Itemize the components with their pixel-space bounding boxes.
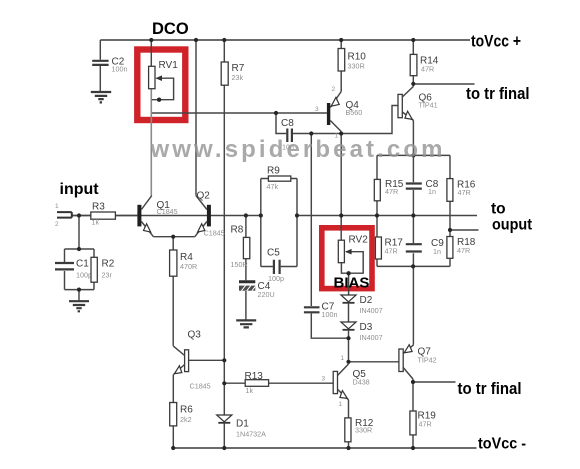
svg-text:C1845: C1845 bbox=[204, 229, 225, 238]
wire Q6 emitter / bias cap column bbox=[412, 121, 414, 345]
trimmer RV2 bbox=[338, 235, 368, 263]
transistor Q7 bbox=[399, 345, 437, 379]
svg-text:TIP42: TIP42 bbox=[418, 356, 437, 365]
wire top +V rail bbox=[100, 39, 470, 41]
resistor R6 bbox=[170, 403, 194, 426]
svg-text:23r: 23r bbox=[102, 271, 113, 280]
svg-text:toVcc +: toVcc + bbox=[471, 32, 521, 51]
label to ouput bbox=[491, 201, 532, 234]
diode D1 zener bbox=[217, 415, 266, 439]
svg-text:3: 3 bbox=[322, 376, 326, 383]
wire Q2 collector column bbox=[195, 40, 197, 196]
wire bottom -V rail bbox=[173, 447, 476, 449]
svg-text:RV2: RV2 bbox=[349, 235, 369, 246]
transistor Q2 bbox=[195, 191, 225, 238]
svg-text:1N4732A: 1N4732A bbox=[236, 430, 266, 439]
wire C2 column bbox=[99, 40, 101, 91]
resistor R15 bbox=[374, 179, 403, 201]
capacitor C1 bbox=[55, 259, 92, 280]
wire Q7 collector to R19 bbox=[412, 379, 414, 448]
wire C7 column bbox=[311, 134, 348, 339]
svg-text:R9: R9 bbox=[267, 166, 280, 177]
svg-text:47R: 47R bbox=[458, 188, 471, 197]
wire input shunt column bbox=[78, 216, 80, 250]
svg-text:B560: B560 bbox=[346, 108, 363, 117]
label BIAS bbox=[334, 275, 370, 292]
resistor R3 bbox=[91, 202, 116, 227]
transistor Q1 bbox=[137, 196, 177, 237]
svg-text:1: 1 bbox=[339, 401, 343, 408]
svg-text:BIAS: BIAS bbox=[334, 275, 370, 292]
svg-text:to tr final: to tr final bbox=[466, 85, 530, 103]
svg-text:2k2: 2k2 bbox=[180, 415, 192, 424]
wire R14 column bbox=[412, 40, 414, 84]
svg-text:www.spiderbeat.com: www.spiderbeat.com bbox=[150, 136, 443, 163]
svg-text:toVcc -: toVcc - bbox=[478, 436, 526, 453]
svg-text:1: 1 bbox=[341, 355, 345, 362]
capacitor C8 (miller) bbox=[281, 118, 294, 152]
wire C1/R2 parallel frame bbox=[65, 249, 95, 300]
wire RV1 column bbox=[150, 40, 152, 196]
resistor R18 bbox=[447, 237, 476, 259]
capacitor C2 bbox=[92, 57, 127, 74]
svg-text:Q3: Q3 bbox=[188, 330, 202, 341]
wire Q3 emitter to R6 bbox=[172, 375, 174, 449]
resistor R2 bbox=[91, 257, 115, 282]
svg-text:C1845: C1845 bbox=[190, 382, 211, 391]
svg-text:D1: D1 bbox=[236, 419, 249, 430]
svg-text:C1: C1 bbox=[76, 259, 89, 270]
resistor R16 bbox=[447, 179, 476, 202]
wire R9/C5 right leg bbox=[296, 179, 298, 267]
label to tr final (top) bbox=[466, 85, 530, 103]
svg-text:ouput: ouput bbox=[492, 217, 532, 234]
wire input/feedback rail left bbox=[72, 215, 261, 217]
resistor R19 bbox=[410, 411, 436, 435]
resistor R17 bbox=[375, 237, 403, 259]
wire output stub from R16/R18 junction bbox=[450, 229, 479, 231]
svg-text:1n: 1n bbox=[428, 187, 436, 196]
label toVcc + bbox=[471, 32, 521, 51]
wire R7 column down to Q3 base / R13 / D1 bbox=[223, 40, 225, 448]
label input bbox=[60, 181, 100, 198]
svg-text:D438: D438 bbox=[353, 378, 370, 387]
wire to tr final top bbox=[413, 83, 474, 85]
svg-text:C1845: C1845 bbox=[157, 207, 178, 216]
diode D2 bbox=[341, 295, 383, 315]
svg-text:150R: 150R bbox=[231, 260, 248, 269]
svg-text:C5: C5 bbox=[267, 248, 280, 259]
wire R4 / Q3 collector column bbox=[172, 237, 174, 346]
resistor R13 bbox=[245, 371, 269, 395]
svg-text:100n: 100n bbox=[322, 310, 338, 319]
wire diode chain column bbox=[348, 273, 350, 362]
wire Q5 emitter to R12 bbox=[348, 400, 350, 448]
wire Q5 collector to Q7 base bbox=[349, 361, 399, 363]
svg-text:330R: 330R bbox=[355, 426, 372, 435]
wire R13 line to Q5 base bbox=[224, 382, 333, 384]
svg-text:220U: 220U bbox=[258, 290, 275, 299]
resistor R8 bbox=[231, 225, 250, 270]
diode D3 bbox=[341, 322, 383, 342]
wire to tr final bottom bbox=[413, 381, 456, 383]
wire R8/C4 column bbox=[245, 216, 247, 320]
wire R3 to Q1 base bbox=[115, 215, 137, 217]
svg-text:3: 3 bbox=[315, 106, 319, 113]
svg-text:47R: 47R bbox=[385, 187, 398, 196]
resistor R9 bbox=[267, 166, 291, 192]
svg-text:R13: R13 bbox=[245, 371, 264, 382]
svg-text:RV1: RV1 bbox=[159, 60, 179, 71]
svg-text:47k: 47k bbox=[267, 182, 279, 191]
wire Q3 base to R7 column bbox=[189, 359, 225, 361]
svg-text:R3: R3 bbox=[92, 202, 105, 213]
resistor R4 bbox=[170, 250, 198, 276]
svg-text:47R: 47R bbox=[385, 247, 398, 256]
svg-text:47R: 47R bbox=[419, 420, 432, 429]
wire RV2 bottom lead jog bbox=[341, 263, 348, 274]
wire R9/C5 left leg bbox=[260, 179, 262, 267]
label toVcc - bbox=[478, 436, 526, 453]
svg-text:TIP41: TIP41 bbox=[419, 101, 438, 110]
transistor Q6 bbox=[398, 84, 438, 121]
label to tr final (bottom) bbox=[458, 380, 522, 398]
capacitor C4 electrolytic bbox=[239, 281, 275, 299]
ground under C1/R2 bbox=[69, 301, 89, 311]
svg-text:1: 1 bbox=[55, 203, 59, 210]
red highlight box around RV1 bbox=[137, 50, 185, 121]
wire C5 leads bbox=[261, 266, 297, 268]
wire RV1 wiper loop bbox=[152, 78, 174, 100]
svg-text:1k: 1k bbox=[92, 218, 100, 227]
wire Q4 collector column down to RV2 bbox=[340, 132, 342, 241]
capacitor C8 (emitter zobel) bbox=[406, 179, 439, 196]
svg-text:2: 2 bbox=[332, 86, 336, 93]
transistor Q5 bbox=[322, 355, 370, 408]
ground under C2 bbox=[91, 92, 111, 102]
wire output rail right bbox=[297, 215, 477, 217]
wire Q1 Q2 emitter join bbox=[153, 236, 194, 238]
svg-text:D2: D2 bbox=[360, 295, 373, 306]
watermark bbox=[150, 136, 443, 163]
svg-text:IN4007: IN4007 bbox=[360, 306, 383, 315]
wire Q1 collector to Q4 base line bbox=[151, 112, 327, 114]
svg-text:R6: R6 bbox=[180, 405, 193, 416]
svg-text:47R: 47R bbox=[421, 65, 434, 74]
input connector J1 bbox=[55, 203, 72, 228]
svg-text:100n: 100n bbox=[112, 65, 128, 74]
svg-text:IN4007: IN4007 bbox=[360, 333, 383, 342]
svg-text:R8: R8 bbox=[231, 225, 244, 236]
svg-text:to tr final: to tr final bbox=[458, 380, 522, 398]
resistor R7 bbox=[221, 62, 245, 85]
wire input jack to R3 bbox=[72, 215, 91, 217]
wire R9 leads bbox=[261, 178, 297, 180]
transistor Q4 bbox=[315, 86, 362, 140]
svg-text:Q2: Q2 bbox=[197, 191, 211, 202]
wire lower emitter network rail bbox=[377, 265, 450, 267]
svg-text:2: 2 bbox=[55, 221, 59, 228]
resistor R12 bbox=[345, 418, 374, 442]
wire R15/R17 column bbox=[376, 155, 378, 266]
resistor R14 bbox=[410, 54, 439, 75]
wire R16/R18 column bbox=[449, 155, 451, 266]
svg-text:R2: R2 bbox=[102, 259, 115, 270]
svg-text:C8: C8 bbox=[281, 118, 294, 129]
transistor Q3 bbox=[173, 330, 210, 391]
capacitor C9 bbox=[406, 238, 444, 256]
capacitor C5 bbox=[267, 248, 284, 284]
wire C8 branch to Q6 base bbox=[276, 106, 398, 134]
ground under C4 bbox=[236, 320, 256, 327]
capacitor C7 bbox=[304, 302, 338, 320]
trimmer RV1 bbox=[149, 60, 179, 89]
svg-text:to: to bbox=[491, 201, 506, 218]
svg-text:47R: 47R bbox=[457, 246, 470, 255]
wire R10 / Q4 emitter column bbox=[340, 40, 342, 92]
svg-text:100p: 100p bbox=[268, 274, 284, 283]
svg-text:330R: 330R bbox=[348, 62, 365, 71]
svg-text:23k: 23k bbox=[232, 73, 244, 82]
label DCO bbox=[152, 20, 189, 38]
svg-text:470R: 470R bbox=[180, 262, 197, 271]
red highlight box around RV2 bbox=[322, 228, 372, 289]
wire upper emitter network rail bbox=[377, 154, 450, 156]
resistor R10 bbox=[338, 49, 366, 72]
svg-text:input: input bbox=[60, 181, 100, 198]
wire RV2 wiper loop bbox=[346, 252, 363, 274]
svg-text:1n: 1n bbox=[433, 247, 441, 256]
svg-text:D3: D3 bbox=[360, 322, 373, 333]
svg-text:DCO: DCO bbox=[152, 20, 189, 38]
svg-text:1k: 1k bbox=[246, 386, 254, 395]
svg-text:100p: 100p bbox=[76, 271, 92, 280]
